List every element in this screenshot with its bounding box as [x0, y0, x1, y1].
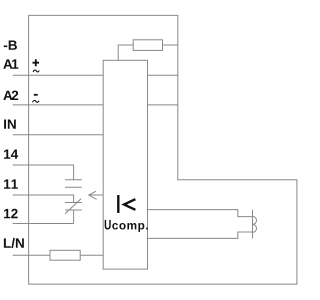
- device block U1: [103, 60, 147, 269]
- polarity -: [34, 94, 38, 96]
- contact bar 2: [65, 186, 82, 188]
- wire -B branch left of resistor R1: [118, 45, 133, 60]
- actuation arrow: [89, 191, 103, 199]
- polarity ~ under -: [32, 100, 39, 102]
- wire IN: [13, 134, 104, 136]
- wire coil bottom: [148, 232, 253, 238]
- wire 14: [13, 165, 74, 180]
- polarity +: [33, 59, 40, 66]
- contact NC diagonal: [65, 199, 81, 214]
- wire L/N left of resistor R2: [13, 254, 50, 256]
- frame outline: [29, 15, 297, 284]
- contact bar 4 (12): [65, 209, 82, 211]
- wire coil top: [148, 210, 253, 217]
- wire A2 right stub: [148, 104, 178, 106]
- wire A2: [13, 104, 104, 106]
- label 12: [4, 209, 18, 218]
- polarity ~ under +: [33, 70, 39, 72]
- contact bar 3 (11): [65, 202, 82, 204]
- label -B: [4, 41, 17, 50]
- label IN: [4, 120, 16, 129]
- resistor R2: [50, 250, 80, 260]
- label A1: [3, 59, 18, 68]
- wire A1: [13, 74, 104, 76]
- resistor R1: [133, 40, 162, 51]
- wire -B branch right of resistor R1: [163, 44, 178, 46]
- wire L/N right of resistor R2: [80, 254, 103, 256]
- wire 11: [13, 195, 74, 203]
- contact bar top (14): [65, 179, 82, 181]
- threshold symbol |<: [118, 195, 135, 213]
- wire A1 right stub: [148, 74, 178, 76]
- label A2: [3, 91, 18, 100]
- label 14: [4, 150, 18, 159]
- coil K1: [253, 210, 257, 239]
- wire 12: [13, 210, 74, 224]
- label 11: [4, 179, 18, 188]
- label Ucomp.: [105, 220, 148, 232]
- label L/N: [4, 238, 24, 248]
